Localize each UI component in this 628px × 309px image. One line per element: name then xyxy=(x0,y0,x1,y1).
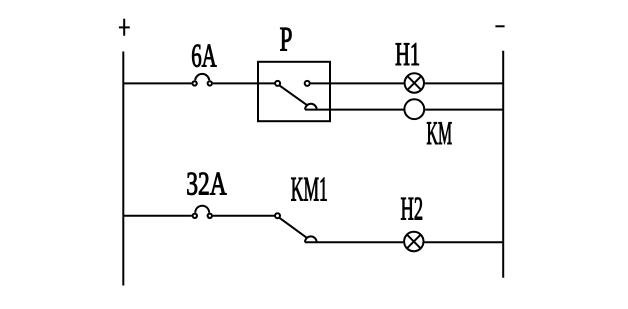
switch P right contact xyxy=(305,81,310,86)
wire: lamp H1 to right bus xyxy=(425,82,503,84)
svg-text:P: P xyxy=(280,21,293,59)
lamp H2 xyxy=(404,232,423,251)
svg-text:32A: 32A xyxy=(186,166,227,202)
wire: fuse 32A to contact KM1 xyxy=(213,215,275,217)
switch P left contact xyxy=(275,81,280,86)
left bus wire (+) xyxy=(122,52,124,286)
lamp H1 xyxy=(405,73,424,92)
wire: contact KM1 to lamp H2 xyxy=(305,241,403,243)
right bus wire (-) xyxy=(502,51,504,278)
wire: switch P right contact to lamp H1 xyxy=(310,82,404,84)
wire: left bus to fuse 6A xyxy=(123,82,191,84)
fuse F1 6A xyxy=(192,74,212,86)
wire: lamp H2 to right bus xyxy=(424,241,503,243)
wire: coil KM to right bus xyxy=(425,109,503,111)
svg-text:H1: H1 xyxy=(395,37,420,73)
switch P blade xyxy=(279,85,306,104)
svg-text:KM1: KM1 xyxy=(291,171,328,209)
contactor coil KM xyxy=(404,99,424,119)
wire: left bus to fuse 32A xyxy=(123,215,192,217)
wire: switch P dome to coil KM xyxy=(305,109,403,111)
svg-text:6A: 6A xyxy=(191,38,217,74)
switch P lower contact dome xyxy=(305,104,317,110)
- terminal symbol xyxy=(495,25,504,27)
svg-text:KM: KM xyxy=(427,116,453,152)
fuse F2 32A xyxy=(193,206,212,218)
svg-text:H2: H2 xyxy=(401,191,424,227)
contact KM1 xyxy=(275,213,317,242)
+ terminal symbol xyxy=(119,19,130,36)
switch P enclosure box xyxy=(258,62,330,121)
wire: fuse 6A to switch P left contact xyxy=(213,82,275,84)
